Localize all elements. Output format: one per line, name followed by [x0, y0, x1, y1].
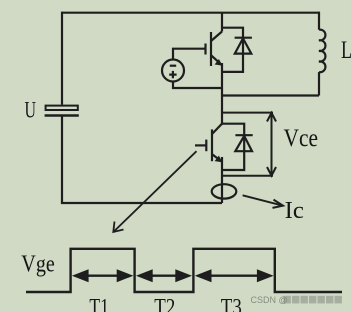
- wire midpoint to inductor: [222, 94, 319, 96]
- Vge waveform trace: [26, 249, 342, 292]
- wire source bottom to emitter node: [173, 82, 222, 89]
- svg-text:CSDN @: CSDN @: [251, 295, 288, 305]
- svg-text:U: U: [25, 98, 37, 123]
- svg-text:L: L: [341, 37, 351, 64]
- wire bottom rail: [61, 202, 222, 204]
- wire source top to gate: [173, 49, 206, 60]
- Q2 emitter arrowhead: [215, 156, 223, 163]
- wire top rail: [62, 12, 319, 14]
- Ic pointer arrow: [243, 195, 283, 208]
- wire left vertical upper: [61, 12, 63, 105]
- diode D1 (top freewheel): [222, 28, 252, 72]
- inductor L coil: [319, 30, 325, 73]
- svg-text:Vge: Vge: [21, 252, 55, 278]
- Q1 emitter arrowhead: [215, 59, 223, 66]
- wire left vertical lower: [61, 117, 63, 204]
- current probe loop (Ic): [212, 184, 237, 198]
- T2 interval arrow: [136, 269, 192, 282]
- capacitor U: [45, 106, 79, 116]
- Vce measurement arrows: [222, 113, 276, 176]
- wire main vertical bottom: [221, 157, 223, 203]
- wire right vertical upper: [318, 12, 320, 30]
- T3 interval arrow: [195, 269, 274, 282]
- wire main vertical top: [221, 13, 223, 32]
- svg-text:Ic: Ic: [285, 197, 304, 224]
- transistor Q1 (top IGBT): [206, 32, 223, 67]
- wire main vertical middle: [221, 63, 223, 124]
- T1 interval arrow: [72, 269, 133, 282]
- svg-text:T1: T1: [89, 295, 109, 312]
- diode D2 (bottom freewheel): [222, 124, 253, 170]
- svg-text:T2: T2: [154, 295, 175, 312]
- transistor Q2 (bottom IGBT): [195, 124, 222, 162]
- svg-text:T3: T3: [221, 295, 242, 312]
- svg-text:Vce: Vce: [284, 125, 319, 152]
- wire right vertical lower: [318, 72, 320, 95]
- voltage source V1 (top gate drive): [162, 49, 222, 88]
- gate waveform pointer arrow: [113, 151, 196, 232]
